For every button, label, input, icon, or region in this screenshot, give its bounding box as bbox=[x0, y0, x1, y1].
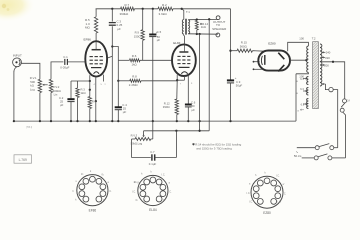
svg-text:200: 200 bbox=[324, 63, 329, 67]
svg-text:a: a bbox=[105, 83, 107, 85]
svg-text:I.C.: I.C. bbox=[283, 193, 287, 196]
svg-text:1kΩ: 1kΩ bbox=[201, 25, 206, 29]
svg-text:s: s bbox=[76, 180, 78, 183]
svg-text:R.4: R.4 bbox=[92, 100, 97, 104]
svg-text:EF86: EF86 bbox=[89, 208, 97, 212]
svg-text:µF: µF bbox=[117, 27, 121, 31]
svg-text:I.C.: I.C. bbox=[132, 191, 136, 194]
svg-text:Log: Log bbox=[30, 87, 35, 91]
svg-text:g₂: g₂ bbox=[102, 173, 104, 176]
svg-text:a′: a′ bbox=[283, 183, 285, 186]
svg-text:INPUT: INPUT bbox=[13, 54, 22, 58]
svg-text:0·05µF: 0·05µF bbox=[60, 66, 69, 70]
svg-text:390Ω: 390Ω bbox=[163, 105, 170, 109]
svg-text:µF: µF bbox=[123, 110, 127, 114]
svg-text:T.2: T.2 bbox=[312, 37, 316, 41]
svg-text:g₂: g₂ bbox=[163, 199, 165, 202]
svg-text:6.3: 6.3 bbox=[301, 102, 305, 106]
svg-text:a: a bbox=[169, 182, 171, 185]
svg-text:R.7: R.7 bbox=[125, 3, 130, 7]
svg-text:50kΩ.Log: 50kΩ.Log bbox=[131, 142, 143, 146]
svg-text:EL84: EL84 bbox=[173, 41, 181, 45]
svg-text:h: h bbox=[75, 199, 77, 202]
svg-text:a: a bbox=[249, 183, 251, 186]
svg-text:100: 100 bbox=[299, 37, 304, 41]
svg-text:EZ80: EZ80 bbox=[263, 211, 271, 215]
svg-text:2·2MΩ: 2·2MΩ bbox=[129, 83, 139, 87]
svg-text:I.C.: I.C. bbox=[278, 201, 282, 204]
svg-text:g₁: g₁ bbox=[103, 199, 105, 202]
svg-text:1kΩ: 1kΩ bbox=[81, 91, 86, 95]
svg-text:0·1µF: 0·1µF bbox=[149, 162, 157, 166]
svg-text:MΩ: MΩ bbox=[85, 26, 90, 30]
svg-text:R.6: R.6 bbox=[132, 54, 137, 58]
svg-text:7: 7 bbox=[180, 84, 182, 86]
svg-text:390kΩ: 390kΩ bbox=[120, 12, 130, 16]
svg-text:k: k bbox=[90, 170, 92, 173]
svg-text:EZ80: EZ80 bbox=[268, 41, 276, 45]
svg-text:a: a bbox=[297, 109, 299, 112]
svg-text:I.C.: I.C. bbox=[168, 191, 172, 194]
svg-text:h: h bbox=[73, 190, 75, 193]
svg-text:a: a bbox=[108, 181, 110, 184]
svg-text:150Ω: 150Ω bbox=[134, 34, 141, 38]
svg-text:I.C.: I.C. bbox=[247, 192, 251, 195]
svg-text:EF86: EF86 bbox=[84, 37, 92, 41]
svg-text:✱k,g₃: ✱k,g₃ bbox=[134, 181, 140, 184]
svg-text:240: 240 bbox=[326, 51, 331, 55]
svg-text:EL84: EL84 bbox=[149, 208, 157, 212]
svg-text:h: h bbox=[255, 174, 257, 177]
svg-text:L.769: L.769 bbox=[19, 158, 27, 162]
svg-text:R.2: R.2 bbox=[162, 3, 167, 7]
svg-text:a: a bbox=[296, 92, 298, 95]
svg-text:6.3: 6.3 bbox=[300, 77, 304, 81]
svg-text:4: 4 bbox=[94, 84, 96, 86]
svg-text:C.7: C.7 bbox=[150, 150, 155, 154]
svg-text:T.1: T.1 bbox=[186, 10, 190, 14]
svg-text:C.1: C.1 bbox=[63, 55, 68, 59]
svg-text:a: a bbox=[296, 80, 298, 83]
svg-text:50µF: 50µF bbox=[236, 83, 243, 87]
svg-text:I.C.: I.C. bbox=[162, 174, 166, 177]
svg-text:(T.B.I): (T.B.I) bbox=[26, 127, 32, 129]
svg-text:I.C.: I.C. bbox=[249, 201, 253, 204]
svg-text:220: 220 bbox=[325, 56, 330, 60]
svg-text:Lin: Lin bbox=[54, 93, 58, 97]
svg-text:R.V.3: R.V.3 bbox=[131, 134, 138, 138]
svg-text:µF: µF bbox=[192, 108, 196, 112]
svg-text:I.C.: I.C. bbox=[108, 190, 112, 193]
svg-text:R.8: R.8 bbox=[132, 75, 137, 79]
svg-text:1kΩ: 1kΩ bbox=[132, 63, 138, 67]
svg-text:3·9kΩ: 3·9kΩ bbox=[159, 12, 168, 16]
svg-text:9: 9 bbox=[191, 83, 193, 85]
svg-text:g₃: g₃ bbox=[81, 173, 83, 176]
svg-text:g₁: g₁ bbox=[136, 199, 138, 202]
svg-text:k: k bbox=[265, 172, 267, 175]
svg-text:and 150Ω for 3·75Ω loading: and 150Ω for 3·75Ω loading bbox=[196, 147, 232, 151]
svg-text:50 c/s: 50 c/s bbox=[294, 154, 302, 158]
svg-text:k: k bbox=[151, 171, 153, 174]
svg-text:C.5: C.5 bbox=[157, 30, 162, 34]
svg-text:5: 5 bbox=[101, 84, 103, 86]
svg-text:6.3: 6.3 bbox=[300, 87, 304, 91]
svg-text:SPEAKER: SPEAKER bbox=[212, 27, 227, 31]
svg-text:µF: µF bbox=[60, 103, 64, 107]
svg-text:I.C.: I.C. bbox=[276, 175, 280, 178]
svg-text:µF: µF bbox=[157, 38, 161, 42]
svg-text:2A: 2A bbox=[347, 99, 350, 102]
svg-text:h: h bbox=[141, 173, 143, 176]
svg-text:560Ω: 560Ω bbox=[240, 44, 248, 48]
